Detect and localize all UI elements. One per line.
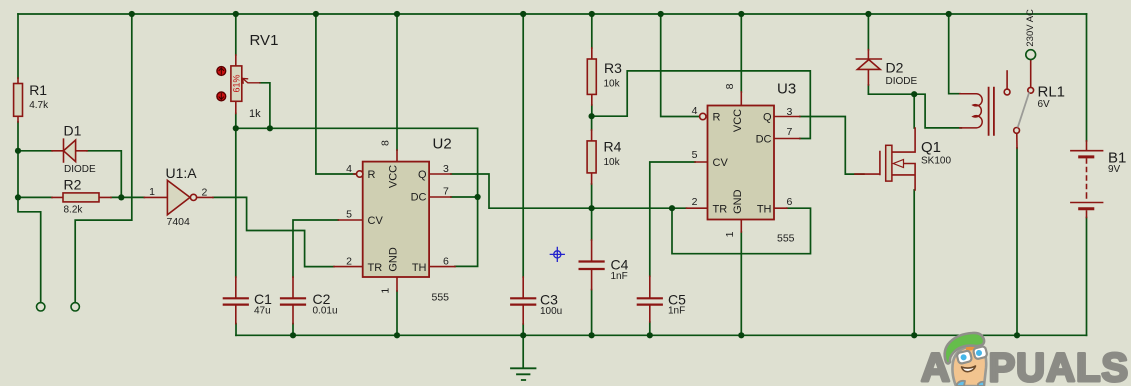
svg-text:1nF: 1nF [611,271,628,282]
svg-text:8.2k: 8.2k [64,205,84,216]
svg-text:U1:A: U1:A [166,165,198,181]
wire C5 bottom [649,322,651,335]
node gnd-C5 [647,332,653,338]
svg-text:7404: 7404 [167,216,191,228]
label C1 [254,291,272,317]
wire rail to D2 [867,14,869,50]
svg-text:R: R [713,112,721,124]
node D1 left [15,148,21,154]
ground [511,368,536,380]
node rail-U2R [313,11,319,17]
label C2 [313,291,338,317]
transistor Q1 SK100 [855,128,915,190]
svg-text:1nF: 1nF [668,306,685,317]
node gnd-U2 [394,332,400,338]
wire C4 bottom [591,290,593,336]
label D1 [64,123,97,176]
svg-text:7: 7 [443,186,449,198]
svg-text:47u: 47u [254,306,271,317]
svg-text:R1: R1 [29,82,47,98]
label U1:A [149,165,207,228]
wire divider node to U3 DC [592,71,811,139]
node rail-coil [946,11,952,17]
node rail-R3 [589,11,595,17]
battery B1 [1071,141,1103,218]
U3 pin numbers [692,83,793,237]
node rail-J2 [129,11,135,17]
wire D1 left [18,150,52,152]
relay RL1 coil [960,88,994,135]
wire U2 DC pin7 to node [451,196,478,198]
node gnd-relay [1014,332,1020,338]
svg-text:555: 555 [432,292,450,304]
node R2 right [118,194,124,200]
capacitor C5 [638,276,662,322]
svg-text:DIODE: DIODE [64,164,96,175]
node gnd-Q1 [911,332,917,338]
node R4-C4-TR [589,205,595,211]
svg-text:61%: 61% [232,74,242,92]
IC U2 555 timer [334,150,455,291]
mascot face [945,333,988,386]
resistor R2 [52,193,111,202]
node rail-C3 [520,11,526,17]
U2 pin numbers [346,140,449,294]
IC U3 555 timer [687,92,800,232]
wire node to R4 top [591,116,593,130]
capacitor C1 [224,277,248,324]
svg-text:R3: R3 [604,60,622,76]
svg-text:8: 8 [380,140,392,146]
node RV1 bottom [233,125,239,131]
wire timing node RV1/DC/TH [236,128,478,266]
svg-text:2: 2 [346,256,352,268]
diode D1 [52,139,87,162]
U3 pin names [713,109,772,216]
svg-text:R: R [368,169,376,181]
node rail-U3R [658,11,664,17]
wire bottom ground rail [236,334,1087,336]
node gnd-C4 [589,332,595,338]
svg-text:10k: 10k [604,79,621,90]
svg-text:DC: DC [756,134,772,146]
terminal 230V AC [1026,50,1036,60]
svg-text:D2: D2 [886,60,904,76]
label B1 [1108,150,1126,176]
RV1 decrement button [217,92,226,101]
wire U2 Q pin3 to U3 TR line [451,174,687,208]
node RV1 wiper [267,125,273,131]
svg-text:1: 1 [380,288,392,294]
svg-text:1: 1 [724,231,736,237]
svg-text:CV: CV [713,157,729,169]
wire rail to C3 [522,14,524,277]
svg-text:Q: Q [763,112,772,124]
wire U1 output to U2 TR [213,197,334,266]
potentiometer RV1 [231,55,260,113]
svg-text:1k: 1k [249,108,261,120]
svg-text:100u: 100u [540,306,562,317]
svg-text:VCC: VCC [732,109,744,132]
svg-text:4: 4 [346,163,352,175]
wire drain node down [913,94,915,128]
wire C4 top to TR line [591,208,593,240]
wire U3 TH/TR loop [672,208,811,254]
op-amp U1 inverter 7404 [144,180,213,214]
svg-text:6: 6 [443,256,449,268]
wire rail to B1 [1086,14,1088,141]
wire top rail to terminal J2 [75,14,132,303]
terminal J1 [37,303,45,311]
node rail-D2 [865,11,871,17]
label C5 [668,292,686,317]
capacitor C4 [580,240,604,290]
svg-text:TH: TH [757,204,772,216]
svg-text:SK100: SK100 [921,156,951,167]
svg-text:555: 555 [777,233,795,245]
svg-text:3: 3 [787,106,793,118]
label U3 [777,81,796,245]
relay RL1 switch [1004,60,1033,148]
terminal J2 [71,303,79,311]
svg-text:GND: GND [732,189,744,214]
svg-text:4: 4 [692,105,698,117]
node U3 TR [669,205,675,211]
wire R3 bottom to node [591,105,593,116]
wire U3 Q to Q1 gate [800,117,864,175]
svg-text:3: 3 [443,163,449,175]
wire C1 bottom [235,324,237,336]
node gnd-C2 [290,332,296,338]
label C4 [611,257,629,283]
node R2 left [15,194,21,200]
origin marker [550,247,564,261]
wire rail to U3 VCC pin8 [740,14,742,92]
wire U2 CV to C2 [293,220,338,277]
label R2 [64,177,84,216]
watermark APPUALS logo [921,333,1129,386]
label R1 [29,82,49,111]
svg-text:GND: GND [388,247,400,272]
label R4 [604,139,622,169]
wire RV1 wiper elbow [260,83,270,129]
svg-text:1: 1 [149,186,155,198]
wire rail to RV1 top [235,14,237,55]
wire U3 CV to C5 [650,162,695,276]
wire U2 GND to bottom rail [396,291,398,335]
svg-text:DIODE: DIODE [886,76,918,87]
node rail-RV1 [233,11,239,17]
node gnd-C3 [520,332,526,338]
wire rail to U3 R pin4 [661,14,700,117]
svg-text:2: 2 [202,187,208,199]
svg-text:U2: U2 [433,136,452,153]
wire left rail to terminal J1 [18,14,41,303]
svg-text:R2: R2 [64,177,82,193]
wire rail to R3 [591,14,593,48]
svg-text:TR: TR [713,204,728,216]
node D2-drain [911,91,917,97]
U2 pin names [368,165,427,274]
svg-text:DC: DC [411,192,427,204]
svg-text:6V: 6V [1038,99,1051,110]
svg-text:6: 6 [787,196,793,208]
label R3 [604,60,623,90]
svg-text:CV: CV [368,215,384,227]
svg-text:R4: R4 [604,139,622,155]
wire C2 bottom [292,324,294,336]
resistor R1 [14,78,23,122]
wire R2 left [18,196,52,198]
svg-text:0.01u: 0.01u [313,306,338,317]
svg-text:PUALS: PUALS [989,346,1130,386]
wire D1 right to R2 node [87,151,121,198]
svg-text:9V: 9V [1108,164,1121,175]
label RV1 [232,32,279,120]
svg-text:4.7k: 4.7k [29,100,49,111]
label Q1 [921,139,951,167]
svg-text:5: 5 [346,209,352,221]
wire B1 bottom [1086,218,1088,336]
diode D2 [856,50,881,85]
label RL1 [1038,84,1066,111]
node rail-U2VCC [394,11,400,17]
svg-text:230V AC: 230V AC [1025,9,1036,47]
wire C3 bottom [522,324,524,335]
svg-text:10k: 10k [604,157,621,168]
svg-text:RL1: RL1 [1038,84,1066,101]
node rail-U3VCC [738,11,744,17]
wire rail to U2 R pin4 [316,14,357,174]
label C3 [540,292,562,318]
node U2 DC [475,194,481,200]
wire R4 bottom to TR line [591,184,593,208]
label U2 [432,136,452,304]
svg-text:U3: U3 [777,81,796,98]
node gnd-U3 [738,332,744,338]
resistor R3 [587,48,596,105]
node R3-R4 [589,113,595,119]
svg-text:2: 2 [692,196,698,208]
wire top VCC rail [18,13,1087,15]
wire rail to U2 VCC pin8 [396,14,398,150]
label D2 [886,60,918,88]
wire drain node to coil bottom [914,94,961,128]
wire ground stem [522,335,524,367]
capacitor C2 [281,277,305,324]
svg-text:RV1: RV1 [250,32,279,49]
RV1 increment button [217,67,226,76]
wire D2 bottom to drain node [868,85,914,94]
wire Q1 source to bottom rail [913,190,915,335]
wire rail to coil top [949,14,960,94]
svg-text:Q: Q [418,169,427,181]
resistor R4 [587,130,596,184]
svg-text:5: 5 [692,149,698,161]
svg-text:VCC: VCC [388,165,400,188]
svg-text:TR: TR [368,262,383,274]
wire RV1 bottom to C1 [235,113,237,277]
wire R2 right to U1 input [111,196,144,198]
svg-text:Q1: Q1 [921,139,941,156]
wire U3 GND to bottom rail [740,232,742,335]
capacitor C3 [511,277,535,324]
svg-text:D1: D1 [64,123,82,139]
svg-text:8: 8 [724,83,736,89]
svg-text:TH: TH [412,262,427,274]
wire relay pole to bottom rail [1016,148,1018,335]
svg-text:7: 7 [787,126,793,138]
